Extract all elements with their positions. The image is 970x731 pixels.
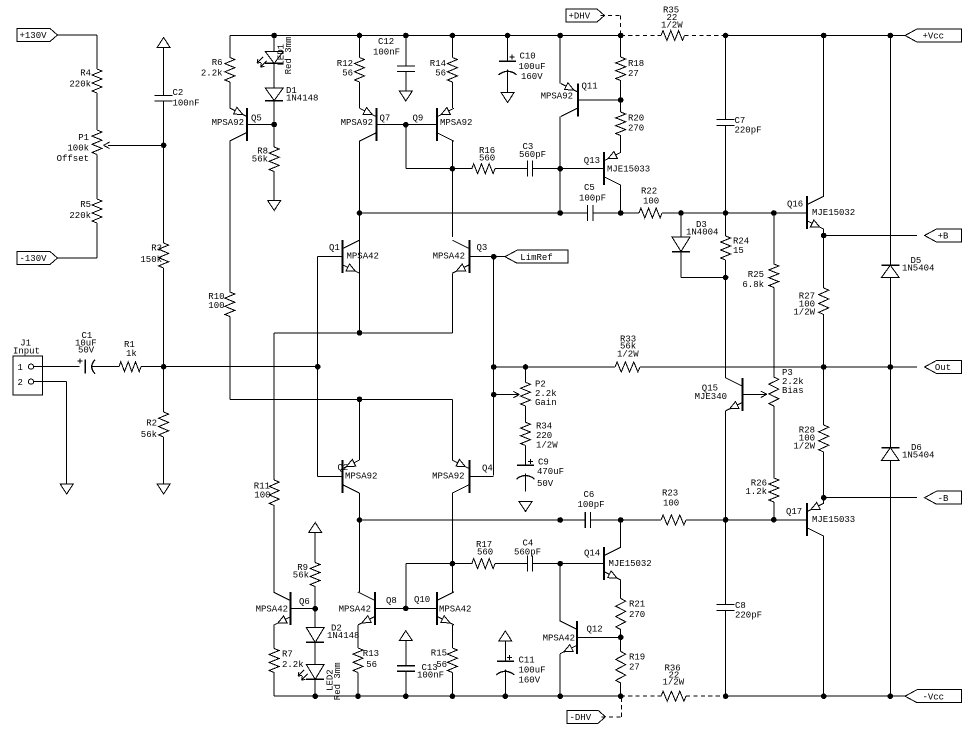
junction	[313, 606, 318, 611]
resistor R2	[141, 412, 169, 440]
wire (dashed)	[685, 35, 726, 37]
svg-text:MPSA92: MPSA92	[345, 472, 377, 482]
wire	[273, 125, 275, 148]
junction	[558, 211, 563, 216]
junction	[558, 33, 563, 38]
resistor R5	[69, 199, 102, 223]
wire	[314, 609, 316, 628]
junction	[821, 233, 826, 238]
wire	[451, 625, 453, 648]
wire	[405, 72, 407, 92]
wire	[725, 611, 727, 697]
wire	[533, 168, 605, 170]
resistor R26	[745, 478, 778, 502]
svg-text:220pF: 220pF	[735, 611, 762, 621]
svg-text:R7: R7	[282, 650, 293, 660]
wire	[681, 277, 726, 279]
svg-text:C6: C6	[584, 490, 595, 500]
svg-text:Q6: Q6	[299, 597, 310, 607]
svg-text:Q14: Q14	[584, 549, 600, 559]
wire (dashed)	[601, 15, 621, 17]
diode D2	[306, 624, 359, 643]
wire	[620, 683, 622, 696]
svg-text:100: 100	[254, 491, 270, 501]
resistor R23	[661, 489, 686, 526]
junction	[315, 364, 320, 369]
svg-text:56k: 56k	[141, 430, 157, 440]
svg-text:MPSA42: MPSA42	[543, 634, 575, 644]
wire	[773, 213, 775, 264]
resistor R12	[337, 58, 365, 83]
wire	[591, 519, 621, 521]
svg-text:270: 270	[629, 610, 645, 620]
svg-text:R14: R14	[430, 59, 446, 69]
svg-text:15: 15	[733, 246, 744, 256]
wire (+Vcc bus)	[726, 35, 917, 37]
wire	[96, 155, 98, 200]
wire (upper pair emitter line)	[274, 332, 452, 334]
resistor R8	[252, 147, 279, 172]
svg-text:560: 560	[479, 154, 495, 164]
resistor R33	[615, 335, 640, 373]
svg-text:1k: 1k	[126, 349, 137, 359]
wire (lower mirror base to R17)	[406, 563, 453, 565]
wire	[560, 519, 585, 521]
resistor R1	[119, 340, 141, 372]
wire	[725, 411, 727, 520]
wire (Out line right)	[640, 366, 917, 368]
wire	[494, 256, 505, 258]
junction	[558, 518, 563, 523]
svg-text:C2: C2	[173, 88, 184, 98]
junction	[821, 33, 826, 38]
wire	[823, 236, 825, 289]
svg-text:1N5404: 1N5404	[902, 264, 934, 274]
junction	[618, 211, 623, 216]
svg-text:1.2k: 1.2k	[745, 487, 767, 497]
svg-text:560: 560	[477, 548, 493, 558]
svg-text:220pF: 220pF	[735, 126, 762, 136]
svg-text:1/2W: 1/2W	[663, 678, 685, 688]
wire (dashed)	[602, 716, 622, 718]
resistor R20	[616, 112, 645, 136]
wire	[96, 35, 98, 69]
junction	[679, 211, 684, 216]
junction	[618, 518, 623, 523]
wire	[34, 381, 67, 383]
wire (lower VAS line left)	[360, 519, 561, 521]
transistor Q4	[432, 459, 494, 493]
svg-text:Q3: Q3	[477, 243, 488, 253]
junction	[404, 694, 409, 699]
svg-text:1/2W: 1/2W	[536, 441, 558, 451]
transistor Q2	[318, 459, 378, 493]
wire	[725, 260, 727, 278]
svg-text:MPSA92: MPSA92	[341, 118, 373, 128]
diode D1	[265, 86, 318, 103]
resistor R25	[742, 264, 778, 290]
svg-text:Input: Input	[13, 347, 40, 357]
transistor Q6	[256, 592, 316, 625]
power flag +Vcc	[905, 29, 962, 42]
wire	[359, 213, 361, 333]
svg-text:50V: 50V	[537, 479, 554, 489]
svg-text:MJE15032: MJE15032	[812, 208, 855, 218]
transistor Q13	[584, 152, 650, 186]
svg-text:220k: 220k	[69, 211, 91, 221]
wire	[359, 493, 361, 520]
wire	[725, 36, 727, 120]
junction	[723, 275, 728, 280]
wire (-DHV bottom bus)	[274, 695, 621, 697]
wire	[823, 367, 825, 425]
svg-text:R24: R24	[733, 237, 749, 247]
wire	[357, 625, 359, 648]
capacitor C12	[373, 37, 415, 71]
power flag -DHV	[567, 710, 606, 723]
svg-text:100: 100	[208, 301, 224, 311]
wire	[163, 101, 165, 145]
svg-text:C11: C11	[519, 656, 535, 666]
wire	[405, 125, 407, 169]
junction	[161, 364, 166, 369]
net flag LimRef	[505, 250, 568, 263]
junction	[723, 33, 728, 38]
wire (lower pair emitter line)	[230, 398, 453, 400]
svg-text:MJE15032: MJE15032	[609, 559, 652, 569]
svg-text:Red 3mm: Red 3mm	[333, 662, 343, 700]
junction	[618, 33, 623, 38]
wire	[163, 48, 165, 96]
wire	[889, 36, 891, 266]
wire	[560, 212, 587, 214]
capacitor C2	[155, 88, 200, 109]
svg-text:Bias: Bias	[782, 386, 804, 396]
wire	[725, 213, 727, 236]
svg-text:MJE15033: MJE15033	[812, 515, 855, 525]
wire	[229, 36, 231, 58]
svg-text:MPSA92: MPSA92	[432, 472, 464, 482]
power flag -B	[925, 491, 962, 504]
resistor R9	[293, 563, 320, 587]
svg-text:Q13: Q13	[584, 156, 600, 166]
junction	[450, 166, 455, 171]
wire	[273, 506, 275, 593]
svg-text:100: 100	[663, 499, 679, 509]
svg-text:100nF: 100nF	[417, 671, 444, 681]
wire (-Vcc bus)	[726, 695, 917, 697]
wire	[314, 587, 316, 609]
junction	[357, 518, 362, 523]
wire	[273, 63, 275, 88]
svg-text:MJE340: MJE340	[695, 392, 727, 402]
wire	[823, 452, 825, 498]
wire	[507, 36, 509, 62]
capacitor C8	[717, 601, 762, 621]
junction	[357, 331, 362, 336]
capacitor C13	[397, 663, 444, 681]
svg-text:56k: 56k	[252, 155, 268, 165]
resistor R14	[430, 58, 458, 83]
potentiometer P3	[769, 368, 804, 406]
junction	[723, 211, 728, 216]
junction	[618, 635, 623, 640]
wire	[593, 212, 639, 214]
junction	[272, 122, 277, 127]
svg-text:R2: R2	[146, 419, 157, 429]
capacitor C9	[517, 458, 565, 490]
wire	[357, 673, 359, 697]
svg-text:MPSA92: MPSA92	[440, 118, 472, 128]
wire	[451, 274, 453, 333]
svg-text:MPSA42: MPSA42	[439, 605, 471, 615]
svg-text:1/2W: 1/2W	[661, 21, 683, 31]
wire	[559, 117, 561, 169]
svg-text:470uF: 470uF	[537, 467, 564, 477]
svg-text:Q12: Q12	[587, 625, 603, 635]
wire	[58, 257, 98, 259]
svg-text:Q10: Q10	[414, 595, 430, 605]
svg-text:1N4148: 1N4148	[327, 631, 359, 641]
svg-text:R21: R21	[629, 600, 645, 610]
wire	[317, 257, 319, 367]
junction	[888, 694, 893, 699]
svg-text:R23: R23	[662, 489, 678, 499]
svg-text:Q9: Q9	[413, 114, 424, 124]
wire	[163, 145, 165, 243]
junction	[821, 495, 826, 500]
resistor R10	[208, 292, 235, 317]
svg-text:MPSA42: MPSA42	[256, 605, 288, 615]
ground (below C10)	[501, 93, 514, 103]
wire	[525, 367, 527, 382]
svg-text:C7: C7	[735, 116, 746, 126]
svg-text:Out: Out	[935, 363, 951, 373]
wire	[525, 446, 527, 466]
wire	[680, 213, 682, 237]
junction	[356, 694, 361, 699]
svg-text:Offset: Offset	[57, 154, 89, 164]
wire (dashed)	[621, 695, 661, 697]
svg-text:150k: 150k	[140, 255, 162, 265]
power flag +130V	[17, 29, 58, 42]
wire	[451, 673, 453, 697]
diode D5	[881, 256, 934, 278]
wire	[559, 564, 561, 621]
diode D3	[672, 220, 718, 252]
wire	[504, 641, 506, 661]
svg-text:R19: R19	[629, 653, 645, 663]
junction	[357, 211, 362, 216]
ground (above R9)	[309, 523, 322, 533]
svg-text:100nF: 100nF	[173, 99, 200, 109]
svg-text:270: 270	[628, 124, 644, 134]
wire	[405, 641, 407, 666]
wire	[620, 81, 622, 113]
power flag +DHV	[566, 9, 605, 22]
svg-text:1N4004: 1N4004	[686, 228, 718, 238]
resistor R27	[793, 288, 828, 318]
junction	[450, 694, 455, 699]
wire (+DHV top bus)	[230, 35, 621, 37]
capacitor C7	[717, 116, 762, 136]
svg-text:100uF: 100uF	[519, 62, 546, 72]
wire	[680, 252, 682, 278]
transistor Q14	[584, 547, 652, 580]
svg-text:R34: R34	[536, 422, 552, 432]
wire	[273, 101, 275, 125]
power flag +B	[925, 229, 962, 242]
svg-text:56: 56	[436, 660, 447, 670]
svg-text:P1: P1	[78, 133, 89, 143]
junction	[618, 98, 623, 103]
svg-text:100: 100	[643, 197, 659, 207]
wire	[359, 141, 361, 237]
wire	[359, 82, 361, 108]
svg-text:1/2W: 1/2W	[793, 308, 815, 318]
ground (above C13)	[399, 631, 412, 641]
svg-text:R3: R3	[151, 244, 162, 254]
wire	[620, 580, 622, 598]
svg-text:R25: R25	[748, 270, 764, 280]
svg-text:6.8k: 6.8k	[742, 280, 764, 290]
resistor R11	[254, 480, 279, 506]
svg-text:1: 1	[18, 363, 23, 373]
wire	[314, 533, 316, 563]
svg-text:Q16: Q16	[787, 200, 803, 210]
svg-text:100pF: 100pF	[579, 194, 606, 204]
wire	[66, 382, 68, 484]
svg-text:R12: R12	[337, 59, 353, 69]
wire	[452, 168, 471, 170]
svg-text:220k: 220k	[69, 80, 91, 90]
svg-text:P2: P2	[535, 380, 546, 390]
wire	[889, 461, 891, 697]
wire	[359, 520, 361, 592]
wire (+B line)	[824, 235, 917, 237]
resistor R6	[201, 58, 235, 83]
transistor Q7	[341, 108, 406, 142]
resistor R15	[431, 648, 458, 673]
resistor R16	[472, 146, 495, 174]
wire	[451, 193, 453, 237]
transistor Q1	[318, 240, 379, 273]
svg-text:160V: 160V	[521, 72, 543, 82]
wire	[359, 213, 361, 237]
wire	[314, 679, 316, 696]
capacitor C4	[514, 539, 541, 572]
svg-text:Q7: Q7	[380, 114, 391, 124]
junction	[618, 694, 623, 699]
resistor R18	[616, 57, 645, 81]
transistor Q10	[406, 592, 472, 625]
wire	[452, 563, 471, 565]
wire	[773, 502, 775, 520]
svg-text:Q5: Q5	[251, 114, 262, 124]
wire	[725, 126, 727, 214]
svg-text:MPSA42: MPSA42	[339, 605, 371, 615]
wire	[314, 642, 316, 664]
wire	[525, 474, 527, 492]
svg-text:MPSA92: MPSA92	[212, 118, 244, 128]
wire (to Q17 base)	[686, 519, 806, 521]
junction	[558, 561, 563, 566]
svg-text:560pF: 560pF	[514, 548, 541, 558]
wire	[620, 630, 622, 652]
ground (below C9)	[519, 502, 532, 512]
svg-text:R15: R15	[431, 649, 447, 659]
svg-text:LimRef: LimRef	[520, 253, 552, 263]
wire	[451, 493, 453, 563]
junction	[558, 694, 563, 699]
wire	[451, 82, 453, 108]
svg-text:R20: R20	[628, 114, 644, 124]
svg-text:1/2W: 1/2W	[617, 350, 639, 360]
svg-text:56: 56	[435, 69, 446, 79]
wire (Out line left)	[494, 366, 615, 368]
svg-text:Q4: Q4	[482, 464, 493, 474]
resistor R4	[69, 69, 102, 94]
transistor Q15	[695, 378, 767, 411]
resistor R7	[269, 649, 303, 673]
wire	[773, 288, 775, 378]
resistor R13	[353, 648, 379, 673]
wire	[451, 169, 453, 193]
wire	[773, 406, 775, 478]
transistor Q11	[541, 82, 621, 117]
wire	[451, 141, 453, 237]
transistor Q12	[543, 621, 621, 654]
wire	[495, 168, 528, 170]
svg-text:560pF: 560pF	[519, 150, 546, 160]
svg-text:220: 220	[536, 431, 552, 441]
junction	[821, 365, 826, 370]
svg-text:+DHV: +DHV	[569, 12, 591, 22]
wire (VAS input line)	[360, 212, 561, 214]
junction	[404, 122, 409, 127]
wire	[273, 36, 275, 52]
wire	[725, 278, 727, 378]
svg-text:-130V: -130V	[20, 254, 48, 264]
wire	[141, 366, 164, 368]
junction	[450, 33, 455, 38]
resistor R36	[661, 664, 686, 702]
wire	[533, 563, 561, 565]
junction	[888, 33, 893, 38]
power flag -130V	[17, 252, 58, 265]
junction	[450, 561, 455, 566]
capacitor C10	[499, 52, 546, 83]
wire	[92, 366, 119, 368]
wire	[406, 168, 453, 170]
ground (below R2)	[157, 484, 170, 494]
wire	[451, 36, 453, 58]
resistor R28	[793, 425, 828, 452]
wire	[317, 367, 319, 477]
wire (VAS out to Q16 base)	[662, 212, 806, 214]
wire	[559, 654, 561, 696]
junction	[772, 211, 777, 216]
wire	[229, 82, 231, 108]
wire	[823, 315, 825, 368]
svg-text:Q1: Q1	[329, 243, 340, 253]
svg-text:56k: 56k	[293, 571, 309, 581]
resistor R24	[721, 236, 750, 260]
svg-text:1/2W: 1/2W	[793, 442, 815, 452]
svg-text:C8: C8	[735, 601, 746, 611]
svg-text:MPSA92: MPSA92	[541, 92, 573, 102]
wire (dashed)	[621, 35, 661, 37]
